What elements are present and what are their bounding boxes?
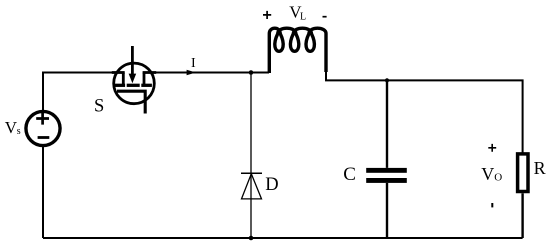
diode D branch wire	[250, 73, 252, 239]
MOSFET center foot bar	[127, 84, 140, 87]
resistor R body	[518, 154, 528, 192]
voltage source Vs circle	[26, 111, 60, 145]
svg-text:C: C	[343, 164, 356, 185]
capacitor C top lead	[386, 80, 388, 167]
svg-text:O: O	[494, 171, 502, 183]
diode D cathode bar	[241, 172, 262, 174]
wire: Vs bottom lead	[42, 147, 44, 239]
inductor VL coil	[269, 28, 326, 73]
label - (VL)	[323, 16, 327, 18]
label + (VL)	[263, 11, 271, 19]
svg-text:I: I	[191, 56, 196, 71]
MOSFET left drop	[122, 73, 125, 85]
node: junction dot at capacitor top	[385, 78, 389, 82]
svg-text:D: D	[265, 175, 278, 195]
Vs minus sign	[38, 136, 50, 139]
capacitor C bottom lead	[386, 183, 388, 238]
label + (VO)	[488, 144, 496, 152]
svg-text:R: R	[534, 158, 546, 178]
label - (VO)	[491, 203, 493, 207]
svg-text:V: V	[481, 164, 494, 184]
diode D triangle	[242, 174, 262, 199]
MOSFET left foot bar	[115, 84, 126, 87]
node: junction dot at diode top	[249, 70, 254, 75]
arrow I on wire	[187, 70, 196, 76]
node: junction dot at diode bottom	[249, 236, 254, 241]
capacitor C bottom plate	[366, 178, 407, 183]
capacitor C top plate	[366, 168, 407, 173]
transistor S (MOSFET) circle	[114, 63, 155, 104]
MOSFET gate bar and lead	[117, 91, 145, 113]
resistor R bottom lead	[521, 193, 523, 238]
MOSFET left top segment	[112, 71, 125, 74]
wire: right top rail from inductor to resistor	[325, 80, 523, 152]
svg-text:s: s	[17, 126, 21, 137]
svg-text:S: S	[94, 96, 104, 116]
svg-text:L: L	[300, 12, 306, 23]
Vs plus sign	[36, 112, 49, 124]
wire: MOSFET right side to inductor corner	[144, 72, 269, 74]
MOSFET center stub	[131, 46, 134, 75]
wire: bottom rail	[43, 237, 523, 239]
MOSFET right top segment	[143, 71, 157, 74]
wire: inductor right lead to rail	[325, 71, 327, 80]
wire: Vs top lead up and across to MOSFET	[43, 73, 123, 112]
MOSFET arrow down	[129, 74, 137, 84]
MOSFET right drop	[143, 73, 146, 85]
MOSFET right foot bar	[141, 84, 152, 87]
